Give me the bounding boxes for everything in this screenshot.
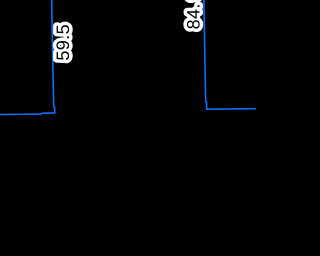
wire: right parcel boundary (vertical edge with corner to bottom-right): [204, 0, 257, 109]
node: dimension label 84.5 (rotated, white halo, cut off at top): [187, 0, 200, 29]
node: dimension label 59.5 (rotated, white halo): [56, 25, 69, 60]
wire: left parcel boundary (vertical edge with corner to bottom-left): [0, 0, 55, 115]
